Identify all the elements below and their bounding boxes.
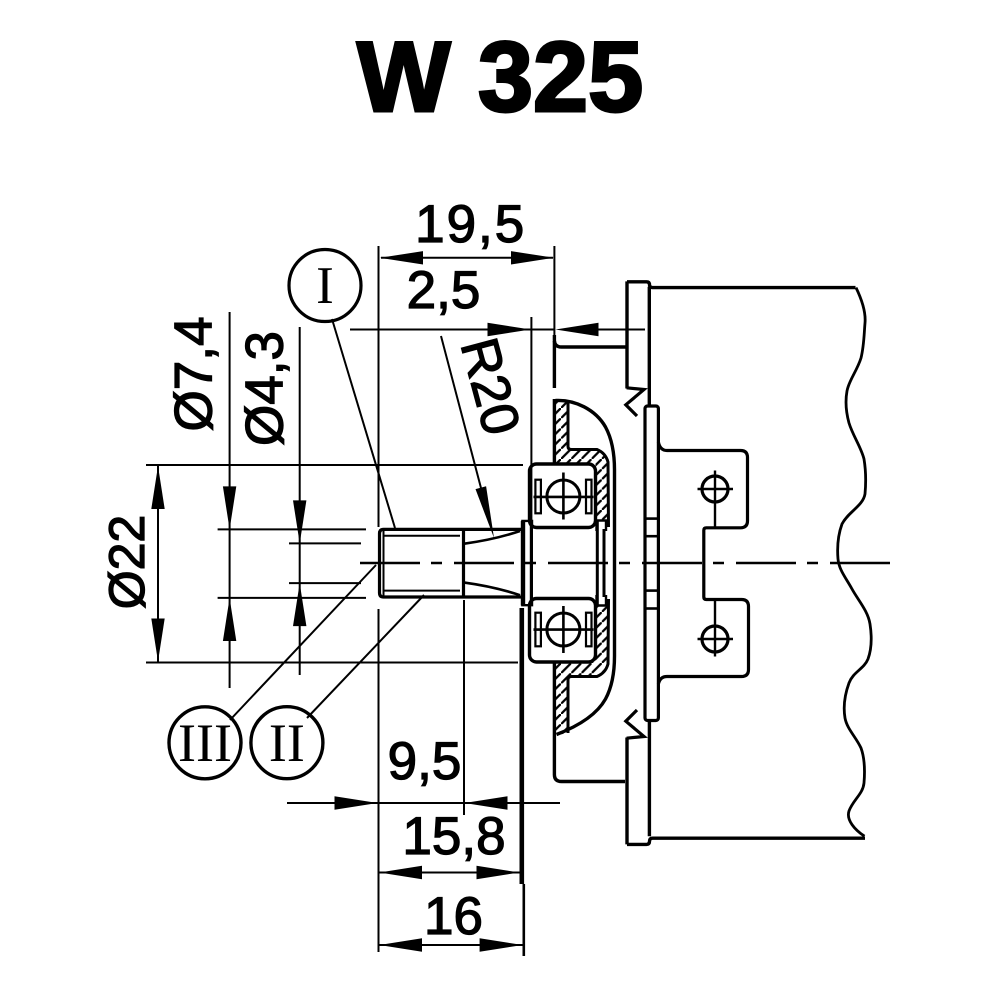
bearing shield bottom-right [586,613,592,647]
svg-text:I: I [316,257,334,315]
dim 2,5 right arrow [556,323,599,336]
dim 9,5 left arrow [335,796,378,809]
svg-text:15,8: 15,8 [402,807,505,866]
svg-text:2,5: 2,5 [407,261,481,320]
washer face thick line [521,521,525,606]
dim Ø7,4 line [229,312,231,688]
taper bottom line [464,595,522,598]
dim 15,8 line [379,872,520,874]
dim 19,5 right arrow [511,251,554,264]
bracket plate hole tick 4 [645,607,658,610]
strip break zigzag top [626,388,644,416]
dim Ø7,4 ext bottom [218,597,366,599]
extension line 16 right x=523.7 [522,884,525,956]
bearing ball bottom [547,613,580,646]
extension line 2.5 left / inner-ring face x=531.4 [530,317,532,520]
taper R20 bottom curve [464,582,521,595]
dim 2,5 left arrow [488,323,531,336]
bracket wings outline [658,442,748,684]
centerline axis [360,562,893,564]
rivet hole bottom cross [698,600,734,657]
front strip bottom-right edge [648,721,651,836]
bracket plate hole tick 3 [645,589,658,592]
dim Ø22 line [157,466,159,662]
dim Ø4,3 line [299,327,301,675]
svg-text:Ø7,4: Ø7,4 [165,317,224,432]
bearing outer box bottom [530,599,596,663]
dim 15,8 left arrow [379,866,422,879]
dim Ø7,4 bottom arrow [223,598,236,641]
dim Ø7,4 top arrow [223,486,236,529]
svg-text:II: II [269,713,305,773]
svg-text:W 325: W 325 [357,21,643,132]
dim 19,5 left arrow [380,251,423,264]
svg-text:Ø22: Ø22 [99,515,155,610]
dim Ø7,4 ext top [218,528,366,530]
leader R20 line [441,336,481,488]
housing wall inner top [568,400,609,527]
bearing shield bottom-left [535,613,541,647]
taper end face [462,529,465,597]
bracket plate hole tick 2 [645,535,658,538]
bearing shield top-right [586,480,592,514]
bearing outer box top [530,464,596,528]
big panel top edge with step [627,282,856,288]
dim 15,8 right arrow [477,866,520,879]
svg-text:Ø4,3: Ø4,3 [236,331,295,446]
inner ring tab bottom-right [597,595,607,606]
leader I [332,319,395,528]
housing wall inner bottom [568,599,609,733]
housing tab top [554,335,626,347]
svg-text:16: 16 [424,887,483,946]
dim Ø4,3 bottom arrow [293,583,306,626]
dim Ø22 bottom arrow [151,619,164,662]
housing hatch bottom [554,607,608,736]
dim 19,5 line [381,257,553,259]
washer tab bottom [522,598,532,606]
bearing ball bottom cross [534,606,594,653]
dim Ø4,3 ext bottom [289,582,361,584]
bracket plate hole tick 1 [645,517,658,520]
front strip bottom segment left edge [625,738,628,845]
front strip top segment left edge [625,281,628,388]
taper R20 top curve [464,531,521,544]
dim 16 line [379,944,523,946]
rivet hole top cross [698,471,734,528]
dim Ø22 ext top [146,464,523,466]
bearing ball top cross [534,473,594,520]
bearing shield top-left [535,480,541,514]
inner ring right face [596,521,599,606]
dim 2,5 left tail [350,329,555,331]
housing dome outline [556,400,615,734]
leader III [230,565,376,720]
rivet hole top circle [702,476,728,502]
thread root bottom [384,590,460,592]
dim 2,5 right tail [597,329,645,331]
dim 16 left arrow [379,938,422,951]
taper top line [464,528,522,531]
housing left wall bottom + tab bottom [554,663,625,782]
callout circle I [289,250,361,322]
housing left wall top [553,341,556,463]
strip break zigzag bottom [626,710,644,738]
svg-text:III: III [178,713,232,773]
dim Ø22 top arrow [151,466,164,509]
inner ring tab top-right [597,521,607,532]
thread chamfer line [383,530,385,596]
thread outer body [380,529,464,597]
svg-text:9,5: 9,5 [388,732,462,791]
leader R20 arrow [476,486,495,538]
big panel wavy break edge [838,288,872,837]
rivet hole bottom circle [702,626,728,652]
dim 9,5 left tail [287,802,560,804]
washer tab top [522,521,532,529]
bracket plate [645,406,658,721]
dim Ø22 ext bottom [146,662,518,664]
bearing ball top [547,480,580,513]
extension line taper-end x=464 bottom [463,600,465,815]
dim 16 right arrow [480,938,523,951]
big panel bottom edge with step [627,838,865,844]
extension line thread-start x=378.5 bottom [378,609,380,952]
extension line 19.5/2.5 right x=554.4 [553,246,555,335]
svg-text:19,5: 19,5 [415,195,526,254]
thread root top [384,535,460,537]
dim Ø4,3 top arrow [293,500,306,543]
extension line 15.8 right x=520.3 [519,608,524,884]
inner ring left face [530,520,533,606]
dim 9,5 right arrow [465,796,508,809]
housing hatch top [554,400,608,520]
callout circle III [169,707,241,779]
leader II [307,595,424,718]
dim Ø4,3 ext top [289,542,361,544]
callout circle II [251,707,323,779]
front strip top-right edge [648,287,651,405]
extension line thread-start x=378.5 top [378,246,380,527]
hub tube line [603,529,606,597]
